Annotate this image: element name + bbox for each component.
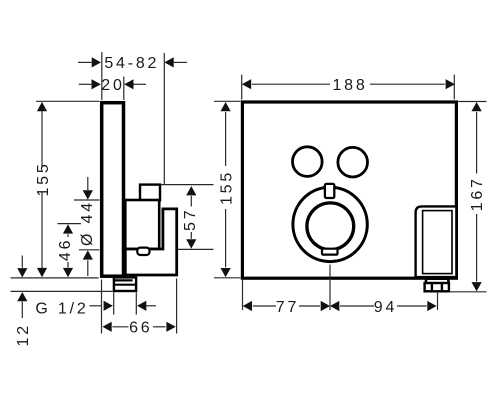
svg-text:20: 20: [101, 77, 124, 94]
dial top marker: [325, 184, 334, 198]
dim 57: [149, 184, 214, 186]
wall line: [163, 53, 165, 185]
dim 167: [476, 112, 478, 282]
ext hline body bottom (O44 lower): [79, 249, 100, 251]
ext lines stub: [113, 293, 115, 315]
dim 77: [243, 301, 252, 311]
extension line plate back (20): [123, 77, 125, 101]
svg-text:167: 167: [469, 176, 486, 211]
ext hline top-left: [36, 100, 100, 102]
ext hline stub bottom left: [11, 290, 113, 292]
svg-text:G 1/2: G 1/2: [35, 300, 88, 317]
svg-text:Ø 44: Ø 44: [79, 200, 96, 246]
ext hline body top (O44 upper): [74, 199, 100, 201]
svg-text:12: 12: [15, 323, 32, 346]
svg-text:155: 155: [35, 161, 52, 196]
cap box (top small box): [140, 185, 160, 201]
wall plate (side): [102, 103, 124, 277]
svg-text:77: 77: [276, 299, 299, 316]
dim 155 (front): [225, 112, 227, 267]
dim 155 (front) ext lines: [214, 100, 241, 102]
dim 20: [79, 83, 146, 85]
svg-text:66: 66: [129, 320, 152, 337]
svg-text:94: 94: [374, 299, 397, 316]
extension line plate front (up): [101, 52, 103, 100]
holder flange: [426, 279, 448, 284]
dim 54-82: [78, 61, 187, 63]
ext hline plate bottom: [11, 277, 99, 279]
svg-text:46: 46: [57, 238, 74, 261]
svg-text:57: 57: [182, 208, 199, 231]
thermostat dial inner: [307, 203, 354, 250]
dim 12: [21, 256, 23, 319]
svg-text:54-82: 54-82: [104, 55, 159, 72]
valve body upper: [125, 200, 159, 249]
svg-text:188: 188: [332, 77, 367, 94]
holder nut: [425, 283, 449, 291]
dim 66: [101, 280, 103, 334]
G 1/2 stub (side): [114, 277, 136, 291]
dim 155 (side): [41, 104, 43, 276]
ext lines 188: [241, 75, 243, 100]
ext lines 77/94: [242, 280, 244, 310]
dim 94: [330, 301, 339, 311]
svg-text:155: 155: [218, 170, 235, 205]
dim 46: [67, 234, 69, 267]
dim 188: [242, 79, 251, 89]
select button right: [338, 147, 368, 177]
holder box (front): [416, 206, 457, 277]
lower body + holder bracket (57 box): [125, 209, 176, 275]
safety tab: [137, 248, 149, 255]
select button left: [293, 147, 323, 177]
ext hline axis (46): [58, 223, 82, 225]
dim 167 ext lines: [458, 101, 486, 103]
dim O44: [87, 177, 89, 276]
thermostat dial outer: [293, 187, 367, 261]
face plate (front): [242, 102, 456, 278]
dial bottom marker: [322, 249, 338, 255]
